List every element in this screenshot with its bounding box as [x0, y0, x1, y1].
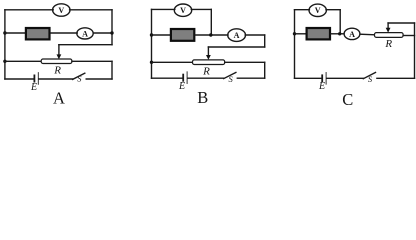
- wire: A right vertical lower segment: [111, 61, 113, 79]
- wire: C top-left to voltmeter: [295, 9, 310, 11]
- svg-text:B: B: [197, 88, 208, 106]
- wire: B rheostat to right vertical: [225, 61, 265, 63]
- node: C left junction at resistor row: [293, 32, 296, 35]
- switch S (circuit B knife switch blade): [224, 72, 236, 78]
- wire: B left vertical: [151, 9, 153, 78]
- wire: C switch to bottom-right corner: [377, 77, 415, 79]
- wire: A switch to bottom-right corner: [86, 78, 112, 80]
- wire: A rheostat to right vertical: [72, 60, 112, 62]
- rheostat R (circuit A, slide resistor body): [41, 59, 72, 64]
- wire: C battery to switch: [327, 77, 364, 79]
- node: C junction voltmeter tap / ammeter: [338, 32, 341, 35]
- node: A left junction at rheostat row: [3, 60, 6, 63]
- wire: B rheostat row left: [152, 61, 193, 63]
- resistor R1 (circuit B, fixed resistor): [171, 29, 194, 41]
- wiper arrow (circuit B rheostat): [206, 47, 211, 60]
- ammeter A1 (circuit A): [77, 28, 93, 39]
- ammeter A1 (circuit C): [344, 28, 360, 39]
- node: B left junction at rheostat row: [150, 61, 153, 64]
- wire: A voltmeter to top-right corner: [70, 9, 112, 11]
- svg-text:E: E: [318, 81, 325, 92]
- wiper arrow (circuit C rheostat): [386, 23, 391, 33]
- resistor R1 (circuit C, fixed resistor): [307, 28, 330, 39]
- battery E (circuit C cell): [322, 73, 326, 85]
- wire: A left vertical: [4, 10, 6, 79]
- svg-text:E: E: [30, 82, 37, 93]
- svg-text:E: E: [178, 81, 185, 92]
- wire: B bottom left to battery: [152, 77, 183, 79]
- battery E (circuit B cell): [183, 72, 187, 84]
- svg-text:A: A: [349, 30, 355, 39]
- svg-text:R: R: [53, 64, 61, 76]
- node: A right junction at ammeter row: [110, 31, 113, 34]
- svg-text:A: A: [234, 31, 240, 40]
- wire: A bottom left to battery: [5, 78, 34, 80]
- wire: A resistor to ammeter: [51, 32, 78, 34]
- wire: B right vertical lower segment: [264, 62, 266, 78]
- node: A left junction at resistor row: [3, 31, 6, 34]
- voltmeter V (circuit A): [53, 4, 70, 16]
- svg-text:V: V: [315, 6, 321, 15]
- svg-text:R: R: [202, 65, 210, 77]
- wire: A rheostat row left: [5, 60, 41, 62]
- rheostat R (circuit B, slide resistor body): [193, 60, 225, 65]
- switch S (circuit C knife switch blade): [363, 73, 375, 79]
- wire: C bottom left to battery: [295, 77, 322, 79]
- svg-text:A: A: [82, 29, 88, 38]
- wire: C right vertical: [414, 23, 416, 78]
- wire: A resistor row left: [5, 32, 25, 34]
- wire: A right vertical upper segment: [111, 10, 113, 45]
- wire: B resistor to ammeter: [195, 34, 228, 36]
- wire: B switch to bottom-right corner: [237, 77, 264, 79]
- wire: B battery to switch: [188, 77, 224, 79]
- svg-text:V: V: [180, 6, 186, 15]
- svg-text:V: V: [58, 6, 64, 15]
- switch S (circuit A knife switch blade): [73, 73, 85, 79]
- wire: A ammeter to right vertical: [94, 32, 113, 34]
- svg-text:C: C: [342, 90, 353, 106]
- svg-text:R: R: [384, 38, 392, 50]
- wire: C resistor row left: [295, 33, 307, 35]
- wire: C voltmeter to top-right corner: [326, 9, 340, 11]
- node: B left junction at resistor row: [150, 33, 153, 36]
- wire: B ammeter to feed corner: [245, 34, 265, 36]
- wire: B wiper feed horizontal: [208, 46, 264, 48]
- wire: C voltmeter-loop right vertical: [339, 10, 341, 34]
- ammeter A1 (circuit B): [228, 29, 246, 42]
- wiper arrow (circuit A rheostat): [57, 45, 62, 60]
- wire: C left vertical: [294, 10, 296, 79]
- wire: B voltmeter-loop right vertical: [210, 9, 212, 35]
- wire: A top-left to voltmeter: [5, 9, 53, 11]
- voltmeter V (circuit C): [309, 4, 326, 16]
- resistor R1 (circuit A, fixed resistor): [26, 28, 50, 39]
- wire: C wiper feed horizontal: [388, 22, 414, 24]
- wire: C rheostat right stub to right vertical: [403, 35, 414, 37]
- svg-text:S: S: [228, 74, 233, 84]
- svg-text:S: S: [77, 73, 82, 83]
- battery E (circuit A cell): [34, 73, 38, 85]
- wire: C resistor to ammeter: [331, 33, 344, 35]
- wire: A battery to switch: [39, 78, 73, 80]
- svg-text:S: S: [368, 74, 373, 84]
- wire: B resistor row left: [152, 34, 171, 36]
- wire: C ammeter to rheostat: [360, 33, 375, 36]
- node: B junction resistor/voltmeter tap: [209, 33, 212, 36]
- voltmeter V (circuit B): [174, 4, 191, 16]
- wire: B feed vertical drop: [264, 35, 266, 47]
- wire: B top-left to voltmeter: [152, 8, 175, 10]
- wire: A rheostat wiper feed horizontal: [59, 44, 112, 46]
- wire: B voltmeter to top-right corner: [191, 8, 211, 10]
- rheostat R (circuit C, slide resistor body): [375, 33, 404, 38]
- svg-text:A: A: [53, 89, 65, 107]
